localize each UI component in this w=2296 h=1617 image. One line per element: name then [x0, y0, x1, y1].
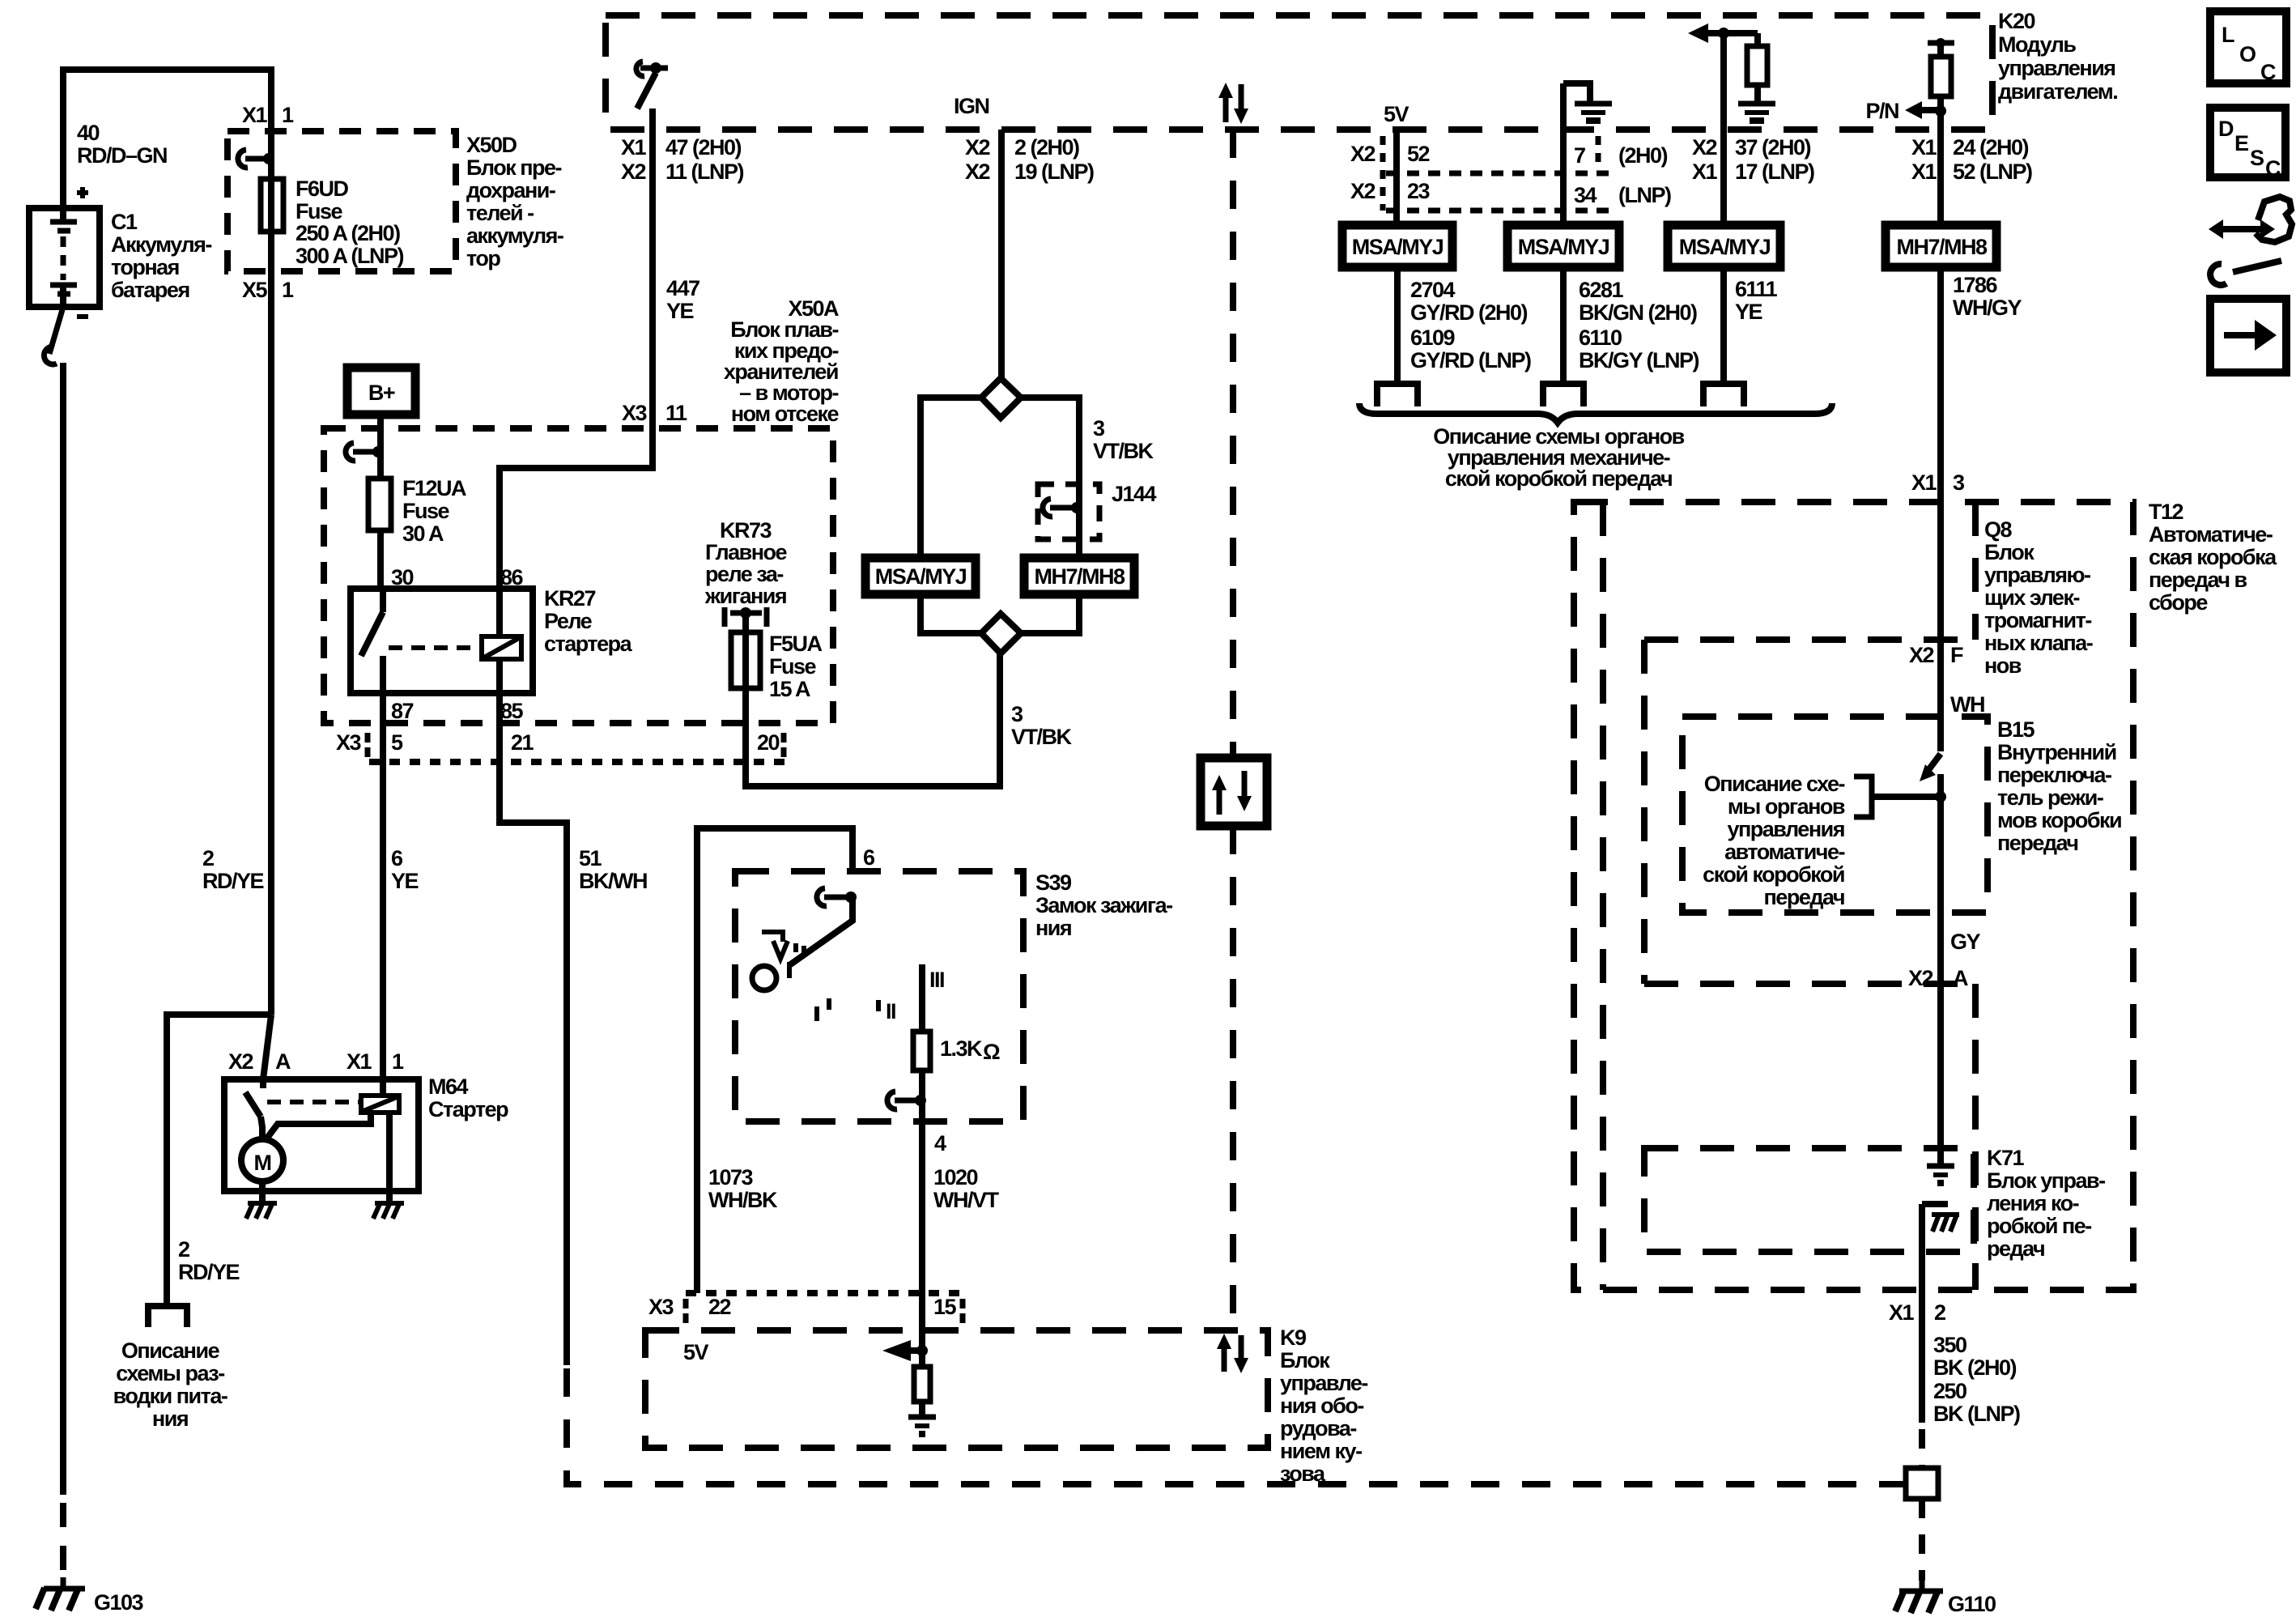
arrows up/down inside K9: [1222, 1347, 1227, 1372]
svg-text:15 A: 15 A: [769, 677, 810, 701]
svg-text:X2: X2: [965, 160, 990, 184]
svg-text:6110: 6110: [1579, 326, 1622, 350]
svg-text:X1: X1: [347, 1049, 372, 1074]
svg-text:X1: X1: [1889, 1300, 1915, 1325]
gearbox code box MSA/MYJ center: [865, 558, 976, 594]
svg-text:3: 3: [1093, 416, 1105, 440]
svg-text:BK/GY (LNP): BK/GY (LNP): [1579, 348, 1699, 372]
svg-text:стартера: стартера: [544, 632, 633, 656]
connector dotted box pins 52/23/7/34: [1380, 136, 1386, 211]
svg-text:сборе: сборе: [2149, 590, 2208, 615]
wire 5V to MSA/MYJ: [1393, 130, 1400, 225]
svg-text:6111: 6111: [1735, 277, 1778, 301]
svg-text:F12UA: F12UA: [402, 476, 466, 500]
dashed wire to G110: [1919, 1499, 1925, 1581]
TCM K71 dashed box: [1644, 1148, 1974, 1252]
svg-text:управления: управления: [1998, 56, 2115, 80]
resistor inside K20 left: [1754, 33, 1761, 46]
connector X3 dotted row: [369, 759, 789, 765]
svg-text:G110: G110: [1948, 1592, 1996, 1616]
svg-text:мов коробки: мов коробки: [1997, 808, 2121, 832]
svg-text:6: 6: [863, 845, 875, 870]
svg-text:II: II: [886, 999, 895, 1023]
ground G103: [61, 1577, 66, 1587]
transmission assembly T12 dashed box: [1574, 502, 2133, 1290]
engine control module K20 dashed box: [606, 15, 1992, 130]
svg-text:6109: 6109: [1410, 326, 1456, 350]
svg-text:передач: передач: [1764, 885, 1845, 909]
svg-text:аккумуля-: аккумуля-: [466, 223, 563, 248]
svg-text:Внутренний: Внутренний: [1997, 740, 2116, 764]
fuse block X50A dashed box: [324, 428, 833, 723]
svg-text:24 (2H0): 24 (2H0): [1953, 135, 2029, 160]
connector hook inside X50D: [238, 150, 248, 168]
ground at solenoid: [386, 1191, 393, 1202]
icon shift cable/wrench: [2209, 219, 2223, 239]
icon arrow box: [2210, 299, 2286, 372]
ignition switch S39 dashed box: [735, 871, 1023, 1121]
svg-text:X3: X3: [622, 401, 648, 425]
svg-text:Fuse: Fuse: [402, 499, 450, 523]
svg-text:Q8: Q8: [1984, 517, 2013, 542]
svg-text:двигателем.: двигателем.: [1998, 79, 2117, 104]
arrow branch pin X2 37 inside K20: [1688, 23, 1708, 43]
connector hook J144: [1043, 499, 1052, 517]
arrows up/down inside K20: [1223, 96, 1229, 122]
switch position I: [827, 998, 831, 1010]
wire 447 YE from K20 to relay coil pin 86: [500, 109, 653, 636]
svg-text:3: 3: [1011, 702, 1023, 726]
svg-text:тор: тор: [466, 246, 500, 270]
svg-text:KR73: KR73: [720, 518, 772, 543]
fuse F12UA: [368, 479, 391, 530]
svg-text:управле-: управле-: [1280, 1371, 1367, 1395]
svg-text:RD/YE: RD/YE: [178, 1260, 240, 1284]
svg-text:S: S: [2250, 146, 2264, 170]
svg-text:1: 1: [392, 1049, 404, 1074]
dashed line K20 to gateway box: [1230, 130, 1236, 758]
svg-text:447: 447: [666, 276, 699, 300]
svg-text:YE: YE: [391, 869, 419, 893]
svg-text:7: 7: [1574, 143, 1585, 168]
inner dashed box bottom edge: [1644, 981, 1975, 987]
svg-text:A: A: [275, 1049, 291, 1074]
svg-text:X1: X1: [1692, 160, 1718, 184]
relay KR27 contact: [380, 589, 386, 612]
svg-text:Блок управ-: Блок управ-: [1987, 1168, 2105, 1193]
svg-text:F: F: [1950, 643, 1963, 667]
svg-text:реле за-: реле за-: [705, 562, 783, 586]
svg-text:ской коробкой: ской коробкой: [1703, 862, 1844, 887]
svg-text:BK/GN (2H0): BK/GN (2H0): [1579, 300, 1697, 325]
svg-text:C1: C1: [111, 210, 138, 234]
bracket to power distribution description: [148, 1306, 187, 1327]
svg-text:17 (LNP): 17 (LNP): [1735, 160, 1814, 184]
svg-text:C: C: [2265, 156, 2281, 181]
fuse F5UA: [731, 632, 760, 688]
svg-text:Fuse: Fuse: [769, 654, 817, 679]
svg-text:зова: зова: [1280, 1462, 1326, 1486]
svg-text:5: 5: [391, 730, 403, 755]
svg-text:34: 34: [1574, 183, 1597, 207]
svg-text:85: 85: [500, 699, 524, 723]
svg-text:6: 6: [391, 846, 403, 870]
svg-text:11 (LNP): 11 (LNP): [665, 160, 744, 184]
svg-text:тромагнит-: тромагнит-: [1984, 608, 2091, 632]
svg-text:Блок: Блок: [1984, 540, 2035, 564]
svg-text:Аккумуля-: Аккумуля-: [111, 232, 211, 257]
svg-text:X2: X2: [1909, 643, 1934, 667]
svg-text:Реле: Реле: [544, 609, 593, 633]
wire GY to K71: [1937, 774, 1944, 1164]
svg-text:батарея: батарея: [111, 278, 189, 302]
connector hook below B+: [346, 443, 355, 461]
svg-text:жигания: жигания: [704, 584, 786, 608]
svg-text:MSA/MYJ: MSA/MYJ: [1518, 235, 1609, 259]
svg-text:MH7/MH8: MH7/MH8: [1896, 235, 1987, 259]
svg-text:K71: K71: [1987, 1146, 2025, 1170]
starter solenoid contact: [260, 1079, 266, 1088]
wire through 1.3K resistor: [919, 964, 925, 1032]
svg-text:M: M: [254, 1151, 271, 1175]
svg-text:S39: S39: [1035, 870, 1072, 895]
wire to MSA/MYJ: [921, 398, 981, 558]
svg-text:52 (LNP): 52 (LNP): [1953, 160, 2032, 184]
svg-text:1786: 1786: [1953, 273, 1998, 297]
svg-text:Описание схе-: Описание схе-: [1704, 772, 1845, 796]
svg-text:1: 1: [282, 278, 294, 302]
svg-text:управления: управления: [1727, 817, 1844, 841]
svg-text:рудова-: рудова-: [1280, 1416, 1356, 1440]
svg-text:телей -: телей -: [466, 201, 534, 225]
svg-text:ская коробка: ская коробка: [2149, 545, 2277, 569]
svg-text:тель режи-: тель режи-: [1997, 785, 2103, 810]
svg-text:X2: X2: [1350, 142, 1375, 166]
svg-text:X2: X2: [1908, 966, 1933, 990]
svg-text:WH/GY: WH/GY: [1953, 296, 2022, 320]
svg-text:X2: X2: [621, 160, 646, 184]
svg-text:2 (2H0): 2 (2H0): [1014, 135, 1079, 160]
svg-text:щих элек-: щих элек-: [1984, 585, 2079, 610]
svg-text:X2: X2: [1692, 135, 1717, 160]
connector X3 dotted row lower: [686, 1290, 963, 1296]
svg-text:1073: 1073: [708, 1165, 754, 1189]
svg-text:X3: X3: [648, 1295, 674, 1319]
svg-text:(LNP): (LNP): [1618, 183, 1671, 207]
wire contact to motor: [261, 1117, 262, 1139]
switch blade S39: [789, 897, 852, 965]
svg-text:RD/D–GN: RD/D–GN: [77, 143, 167, 168]
svg-text:III: III: [929, 968, 944, 992]
svg-text:2704: 2704: [1410, 278, 1456, 302]
svg-text:схемы раз-: схемы раз-: [116, 1361, 224, 1385]
ignition key symbol: [762, 932, 783, 942]
solenoid block Q8 right edge: [1972, 502, 1979, 640]
bracket splice 3: [1703, 384, 1744, 406]
svg-text:дохрани-: дохрани-: [466, 178, 555, 202]
wire 1073 loop to switch pin 6: [697, 828, 852, 1293]
fuse F6UD: [261, 179, 283, 232]
ground clamp at battery negative: [49, 307, 63, 354]
svg-text:C: C: [2260, 60, 2276, 84]
wire jog into starter pin A: [263, 1015, 271, 1079]
gateway arrows box: [1201, 758, 1267, 826]
svg-text:X50D: X50D: [466, 133, 517, 157]
solenoid block Q8 left edge: [1600, 502, 1606, 1290]
dashed line gateway to K9: [1230, 826, 1236, 1330]
terminal B+: [347, 368, 415, 415]
svg-text:VT/BK: VT/BK: [1093, 439, 1154, 463]
ground inside K71: [1927, 1164, 1954, 1169]
svg-text:YE: YE: [1735, 300, 1762, 324]
ground G110: [1920, 1581, 1925, 1589]
arrow P/N: [1905, 101, 1922, 119]
svg-text:F5UA: F5UA: [769, 632, 823, 656]
svg-text:GY: GY: [1950, 930, 1981, 954]
svg-text:250 A (2H0): 250 A (2H0): [296, 221, 400, 245]
fuse block X50D dashed box: [227, 131, 456, 271]
svg-text:автоматиче-: автоматиче-: [1724, 840, 1844, 864]
wire 6281 below: [1560, 267, 1567, 384]
svg-text:51: 51: [579, 846, 602, 870]
svg-text:1.3K: 1.3K: [940, 1036, 983, 1061]
svg-text:управляю-: управляю-: [1984, 563, 2090, 587]
svg-text:WH/BK: WH/BK: [708, 1188, 778, 1212]
gearbox code box MSA/MYJ 2: [1507, 225, 1619, 267]
wire 51 BK/WH from relay pin 85: [500, 693, 567, 1365]
svg-text:Автоматиче-: Автоматиче-: [2149, 522, 2273, 547]
svg-text:ных клапа-: ных клапа-: [1984, 631, 2093, 655]
svg-text:Модуль: Модуль: [1998, 32, 2076, 57]
svg-text:Стартер: Стартер: [428, 1097, 508, 1121]
gearbox code box MSA/MYJ 3: [1668, 225, 1780, 267]
svg-text:RD/YE: RD/YE: [202, 869, 264, 893]
wire IGN: [998, 130, 1005, 380]
arrow to measurement inside K9: [882, 1340, 911, 1361]
battery C1 plus sign: [77, 187, 88, 198]
svg-text:MSA/MYJ: MSA/MYJ: [1352, 235, 1444, 259]
svg-text:водки пита-: водки пита-: [113, 1384, 227, 1408]
gearbox code box MH7/MH8 center: [1024, 558, 1134, 594]
svg-text:52: 52: [1407, 142, 1430, 166]
svg-text:11: 11: [665, 401, 687, 425]
switch blade B15: [1928, 754, 1941, 770]
svg-text:5V: 5V: [1384, 102, 1409, 126]
svg-text:IGN: IGN: [954, 94, 989, 118]
inner dashed box right edge: [1972, 984, 1979, 1290]
svg-text:87: 87: [391, 699, 414, 723]
svg-text:L: L: [2222, 23, 2234, 47]
svg-text:20: 20: [757, 730, 780, 755]
svg-text:ном отсеке: ном отсеке: [731, 402, 840, 426]
wires to lower diamond: [921, 594, 981, 633]
svg-text:G103: G103: [94, 1590, 144, 1615]
svg-text:B+: B+: [368, 381, 395, 405]
svg-text:D: D: [2218, 117, 2234, 141]
svg-text:23: 23: [1407, 179, 1431, 203]
gearbox code box MH7/MH8 top: [1886, 225, 1996, 267]
motor M: [241, 1139, 283, 1181]
wire 2 RD/YE fork to description bracket: [167, 1015, 271, 1306]
svg-text:GY/RD (2H0): GY/RD (2H0): [1410, 300, 1528, 325]
icon LOC box: [2210, 11, 2286, 83]
svg-text:250: 250: [1933, 1379, 1966, 1403]
wire 40 RD/D-GN top-left loop: [63, 70, 271, 1015]
svg-text:Описание: Описание: [121, 1338, 220, 1363]
connector bracket KR73: [725, 607, 767, 627]
svg-text:K9: K9: [1280, 1326, 1307, 1350]
svg-text:Ω: Ω: [983, 1040, 1000, 1064]
ground branch pin 7 inside K20: [1560, 83, 1567, 225]
svg-text:47 (2H0): 47 (2H0): [665, 135, 742, 160]
svg-text:BK/WH: BK/WH: [579, 869, 647, 893]
wire 2704 below: [1394, 267, 1401, 384]
gearbox code box MSA/MYJ 1: [1342, 225, 1452, 267]
svg-text:T12: T12: [2149, 500, 2183, 524]
svg-text:2: 2: [178, 1237, 189, 1262]
svg-text:нием ку-: нием ку-: [1280, 1439, 1362, 1463]
switch contact inside K20: [636, 62, 644, 76]
chassis ground inside K71: [1922, 1201, 1948, 1207]
svg-text:X3: X3: [336, 730, 362, 755]
mode switch B15 dashed box: [1682, 717, 1988, 913]
svg-text:X1: X1: [242, 103, 268, 127]
relay KR27 coil: [482, 636, 521, 659]
resistor 1.3K: [913, 1032, 930, 1070]
wire X1 3 to switch: [1937, 502, 1944, 751]
svg-text:BK (LNP): BK (LNP): [1933, 1402, 2020, 1426]
curly brace manual gearbox description: [1359, 403, 1832, 423]
svg-text:19 (LNP): 19 (LNP): [1014, 160, 1094, 184]
svg-text:1020: 1020: [933, 1165, 978, 1189]
wire F12UA to relay pin 30: [377, 530, 384, 589]
solenoid block Q8 bottom edge: [1644, 636, 1975, 643]
wire F5UA to diamond junction: [746, 652, 1000, 786]
svg-text:торная: торная: [111, 255, 179, 279]
svg-text:1: 1: [282, 103, 294, 127]
connector hook at switch pin 4: [887, 1091, 897, 1109]
resistor P/N inside K20: [1931, 57, 1951, 96]
svg-text:X2: X2: [965, 135, 990, 160]
svg-text:VT/BK: VT/BK: [1011, 725, 1073, 749]
svg-text:15: 15: [933, 1295, 957, 1319]
svg-text:GY/RD (LNP): GY/RD (LNP): [1410, 348, 1531, 372]
svg-text:22: 22: [708, 1295, 731, 1319]
bracket splice 1: [1377, 384, 1418, 406]
wire 6111 below: [1720, 267, 1727, 384]
svg-text:Блок пре-: Блок пре-: [466, 155, 562, 180]
connector square: [1906, 1468, 1938, 1499]
body control module K9 dashed box: [645, 1330, 1268, 1448]
svg-text:X1: X1: [1911, 135, 1937, 160]
switch position II: [876, 1000, 881, 1011]
starter M64 box: [224, 1079, 419, 1191]
starter solenoid coil: [361, 1096, 399, 1113]
wire battery negative down to G103: [60, 363, 66, 1495]
inner dashed box left edge: [1641, 640, 1648, 984]
bracket to description B15: [1854, 777, 1872, 817]
wire motor link: [266, 1113, 371, 1140]
svg-text:WH/VT: WH/VT: [933, 1188, 999, 1212]
ground at motor: [259, 1191, 266, 1202]
svg-text:21: 21: [511, 730, 534, 755]
svg-text:(2H0): (2H0): [1618, 143, 1668, 168]
battery minus sign: [77, 314, 88, 319]
node diamond splice upper: [981, 378, 1021, 418]
svg-text:J144: J144: [1112, 482, 1157, 506]
svg-text:30 A: 30 A: [402, 521, 444, 546]
wire P/N to MH7/MH8: [1937, 113, 1944, 225]
svg-text:K20: K20: [1998, 9, 2035, 33]
svg-text:ния: ния: [152, 1406, 188, 1431]
wire 350 BK to G110: [1919, 1204, 1925, 1423]
svg-text:переключа-: переключа-: [1997, 763, 2111, 787]
connector hook at switch pin 6: [817, 888, 827, 906]
svg-text:ления ко-: ления ко-: [1987, 1191, 2079, 1215]
dashed wire to connector square: [1919, 1429, 1925, 1468]
ground inside K9: [908, 1415, 936, 1420]
svg-text:6281: 6281: [1579, 278, 1624, 302]
svg-text:X1: X1: [1911, 470, 1937, 495]
svg-text:37 (2H0): 37 (2H0): [1735, 135, 1811, 160]
svg-text:E: E: [2234, 131, 2248, 155]
wire 1786 WH/GY: [1937, 267, 1944, 502]
connector J144 dashed box: [1038, 484, 1099, 539]
svg-text:P/N: P/N: [1865, 99, 1898, 123]
svg-text:передач в: передач в: [2149, 568, 2247, 592]
svg-text:5V: 5V: [683, 1340, 709, 1364]
wire 1020 WH/VT to K9: [919, 1100, 925, 1351]
P/N branch: terminal bar: [1928, 40, 1954, 46]
svg-text:Fuse: Fuse: [296, 199, 343, 223]
svg-text:3: 3: [1953, 470, 1965, 495]
svg-text:WH: WH: [1950, 692, 1984, 717]
wire 3 VT/BK to MH7/MH8: [1021, 398, 1079, 558]
wire 6 YE relay 87 to starter: [380, 693, 386, 1079]
svg-text:2: 2: [1934, 1300, 1945, 1325]
svg-text:ния: ния: [1035, 916, 1071, 940]
resistor inside K9: [919, 1351, 925, 1367]
svg-text:мы органов: мы органов: [1728, 794, 1845, 819]
svg-text:X2: X2: [1350, 179, 1375, 203]
svg-text:350: 350: [1933, 1333, 1966, 1357]
svg-text:B15: B15: [1997, 717, 2035, 742]
svg-text:BK (2H0): BK (2H0): [1933, 1355, 2017, 1380]
svg-text:Замок зажига-: Замок зажига-: [1035, 893, 1172, 917]
svg-text:MSA/MYJ: MSA/MYJ: [875, 564, 967, 589]
svg-text:X1: X1: [621, 135, 647, 160]
svg-text:X5: X5: [242, 278, 268, 302]
svg-text:Главное: Главное: [705, 540, 788, 564]
svg-text:YE: YE: [666, 299, 694, 323]
svg-text:O: O: [2239, 42, 2256, 66]
svg-text:передач: передач: [1997, 831, 2078, 855]
svg-text:робкой пе-: робкой пе-: [1987, 1214, 2091, 1238]
svg-text:ской коробкой передач: ской коробкой передач: [1445, 466, 1672, 491]
node diamond splice lower: [981, 614, 1021, 653]
svg-text:KR27: KR27: [544, 586, 596, 611]
svg-text:X1: X1: [1911, 160, 1937, 184]
svg-text:MSA/MYJ: MSA/MYJ: [1679, 235, 1771, 259]
svg-text:F6UD: F6UD: [296, 177, 349, 201]
svg-text:Блок: Блок: [1280, 1348, 1330, 1372]
svg-text:M64: M64: [428, 1074, 469, 1099]
svg-text:2: 2: [202, 846, 214, 870]
wire B+ into fuse: [377, 415, 384, 479]
svg-text:X2: X2: [228, 1049, 253, 1074]
bracket splice 2: [1543, 384, 1584, 406]
relay KR27 box: [351, 589, 533, 693]
